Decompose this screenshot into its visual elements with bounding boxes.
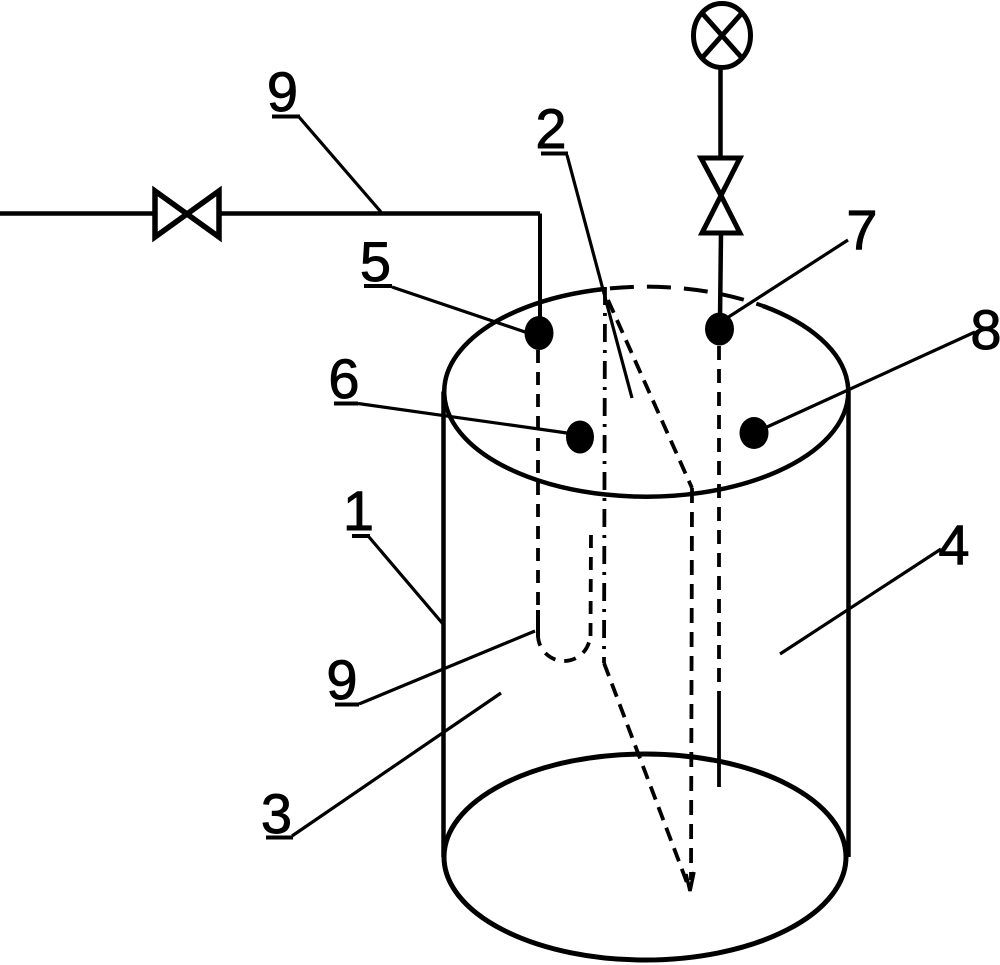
dip tube U bend dashed <box>538 634 590 661</box>
label 2 <box>535 97 632 398</box>
wire: left feed pipe <box>0 211 155 216</box>
lamp/stirrer motor symbol (circle with X) <box>694 4 751 68</box>
svg-text:1: 1 <box>343 479 374 542</box>
label 5 <box>360 230 528 333</box>
thermowell 2 line A dash-dot vertical <box>604 287 605 663</box>
svg-text:9: 9 <box>326 648 357 711</box>
label 7 <box>727 198 878 318</box>
vessel left wall <box>441 392 446 858</box>
probe below nozzle 7 solid tip <box>717 700 721 787</box>
wire: pipe lamp to valve <box>718 69 723 158</box>
label 9 bottom <box>326 631 535 711</box>
svg-text:4: 4 <box>938 513 969 576</box>
nozzle dot 7 <box>705 313 734 346</box>
nozzle dot 8 <box>740 417 769 449</box>
label 9 top <box>267 60 381 212</box>
svg-text:2: 2 <box>535 97 566 160</box>
wire: pipe down to nozzle 5 <box>538 214 542 331</box>
vessel top ellipse solid part <box>444 289 848 497</box>
label 6 <box>328 347 567 433</box>
vessel top ellipse dashed part <box>604 287 763 306</box>
label 8 <box>767 298 1000 427</box>
thermowell 2 line B vertical dashed <box>691 488 692 880</box>
apex arrow tick <box>686 872 694 891</box>
svg-text:5: 5 <box>360 230 391 293</box>
wire: pipe valve to corner <box>219 211 540 216</box>
label 4 <box>780 513 970 654</box>
dip tube U left side dashed <box>536 350 540 612</box>
nozzle dot 6 <box>566 421 594 454</box>
label 1 <box>343 479 443 624</box>
label 3 <box>261 693 501 845</box>
wire: pipe valve to nozzle 7 <box>720 233 721 320</box>
vessel right wall <box>846 388 851 857</box>
dip tube U left solid joint <box>536 610 540 637</box>
probe below nozzle 7 dashed <box>717 346 721 700</box>
svg-text:6: 6 <box>328 347 359 410</box>
thermowell 2 line A slant to apex <box>604 663 689 888</box>
dip tube U right side dashed <box>589 530 593 636</box>
svg-text:8: 8 <box>970 298 1000 361</box>
valve H (horizontal bowtie) <box>155 191 219 237</box>
svg-text:7: 7 <box>846 198 877 261</box>
valve V (vertical bowtie) <box>701 158 740 233</box>
vessel bottom ellipse <box>444 754 846 960</box>
thermowell 2 line B slant dashed <box>608 300 692 488</box>
svg-text:9: 9 <box>267 60 298 123</box>
nozzle dot 5 <box>525 316 554 350</box>
